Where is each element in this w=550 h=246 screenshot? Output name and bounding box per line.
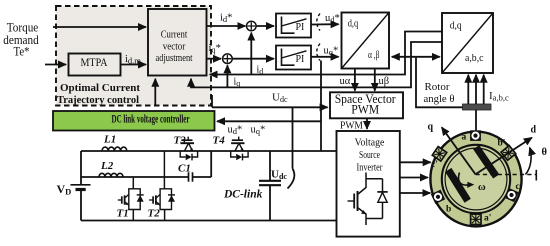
wire: iq feedback from abc transform to CVA and junction2 — [191, 42, 442, 87]
svg-text:id.m: id.m — [125, 54, 141, 66]
svg-text:Udc: Udc — [271, 169, 287, 182]
wire: uq* from PI2 to dq/ab transform — [311, 56, 339, 58]
svg-text:PI: PI — [296, 54, 305, 65]
svg-text:q: q — [428, 122, 434, 133]
slot b (dot) — [431, 190, 445, 204]
svg-text:Inverter: Inverter — [357, 162, 384, 173]
rotor flux barrier bar 1 — [445, 168, 471, 203]
svg-text:d,q: d,q — [450, 21, 463, 32]
wire: bottom rail — [81, 220, 337, 222]
slot c (dot) — [504, 188, 518, 202]
transistor T1 — [132, 177, 134, 189]
svg-text:c': c' — [431, 160, 438, 170]
wire: junction2 to PI 2 — [232, 58, 274, 60]
DC-link capacitor Udc — [269, 151, 271, 180]
svg-text:Te*: Te* — [14, 45, 30, 59]
svg-text:adjustment: adjustment — [156, 53, 193, 64]
wire: iq* to summing junction 2 — [207, 58, 222, 60]
block: Voltage Source Inverter — [337, 131, 400, 237]
wire: Udc tap from DC-link capacitor — [292, 107, 294, 168]
svg-text:θ: θ — [542, 147, 548, 158]
svg-text:VD: VD — [57, 182, 72, 197]
summing junction 1 — [247, 21, 257, 31]
svg-text:DC link voltage controller: DC link voltage controller — [112, 114, 190, 126]
svg-text:Trajectory control: Trajectory control — [57, 94, 139, 106]
d axis arrow — [476, 138, 532, 175]
theta angle arc — [526, 148, 532, 175]
inductor L1 — [102, 147, 127, 151]
rotor flux barrier bar 2 — [473, 145, 499, 178]
transistor T4 — [238, 137, 240, 141]
wire: rotor angle theta up to transforms — [416, 58, 463, 108]
wire: ud*,uq* feedback down to DC link voltage controller — [217, 61, 321, 122]
wire: id.m from MTPA to Current vector adjustment — [121, 64, 147, 66]
svg-text:uα: uα — [340, 76, 351, 87]
svg-text:C1: C1 — [178, 163, 191, 175]
wire: PWM arrow to inverter — [366, 118, 368, 129]
dashed box: Optimal Current Trajectory control region — [56, 6, 211, 106]
svg-text:ud*: ud* — [325, 13, 340, 25]
svg-text:id*: id* — [220, 13, 232, 25]
svg-text:Udc: Udc — [272, 92, 288, 105]
svg-text:ud*: ud* — [228, 124, 243, 136]
inductor L2 — [99, 173, 123, 177]
svg-text:uβ: uβ — [379, 76, 390, 87]
svg-text:d: d — [531, 125, 537, 136]
wire: u-alpha down to SVPWM — [354, 69, 356, 91]
slot c' (cross) — [432, 147, 446, 161]
transistor T2 — [163, 151, 165, 189]
svg-text:PWM: PWM — [340, 120, 363, 131]
current sensor bar — [463, 104, 492, 110]
svg-text:PI: PI — [296, 22, 305, 33]
block: Space Vector PWM — [330, 92, 403, 118]
wire: ud* from PI1 to dq/ab transform — [311, 23, 339, 25]
wire: C1 rail up to top rail — [210, 151, 212, 177]
wire: left vertical with battery — [80, 151, 82, 185]
motor stator outer circle — [430, 132, 521, 227]
slot a (dot) — [470, 130, 481, 141]
block: d,q to alpha,beta transform — [342, 13, 390, 69]
svg-text:Optimal Current: Optimal Current — [60, 82, 140, 94]
svg-text:PWM: PWM — [351, 103, 379, 117]
svg-text:uq*: uq* — [251, 124, 266, 136]
svg-text:ω: ω — [478, 182, 486, 193]
svg-text:T3: T3 — [174, 134, 187, 146]
svg-text:a': a' — [484, 214, 491, 224]
q axis arrow — [442, 127, 476, 174]
slot b' (cross) — [501, 146, 516, 161]
wire: top rail — [81, 150, 337, 152]
transistor T3 — [187, 137, 189, 141]
block MTPA — [69, 54, 121, 76]
wire: Te* to Current vector adjustment — [53, 26, 146, 28]
svg-text:iq*: iq* — [209, 43, 221, 55]
wire: id feedback from abc transform to CVA and junction1 — [210, 32, 442, 75]
svg-text:iq: iq — [234, 77, 241, 89]
svg-text:a,b,c: a,b,c — [465, 53, 484, 64]
svg-text:L1: L1 — [103, 134, 116, 146]
wire: Udc measurement to Space Vector PWM — [211, 95, 213, 107]
svg-text:Current: Current — [161, 30, 188, 41]
wires: three phase outputs to motor — [400, 161, 431, 163]
svg-text:vector: vector — [163, 42, 186, 53]
block: Current vector adjustment — [148, 9, 207, 76]
wire: DC link controller output up into CVA — [154, 79, 156, 106]
svg-text:Source: Source — [359, 150, 380, 161]
omega rotation arrow — [458, 173, 468, 186]
svg-text:Voltage: Voltage — [355, 138, 385, 149]
svg-text:DC-link: DC-link — [223, 189, 263, 201]
svg-text:T1: T1 — [117, 208, 129, 220]
wire: second rail — [81, 176, 188, 178]
wire: u-beta down to SVPWM — [374, 69, 376, 91]
wires: measured phase currents up to abc transform — [467, 75, 469, 104]
wire: Te* to MTPA — [45, 64, 66, 66]
capacitor C1 — [188, 172, 190, 181]
IGBT symbol inside inverter — [348, 173, 388, 226]
svg-text:Ia,b,c: Ia,b,c — [489, 90, 509, 103]
tap of ud*/uq* signals (dashed pick-up) — [317, 14, 320, 61]
svg-text:T4: T4 — [213, 134, 226, 146]
battery VD — [71, 184, 91, 186]
summing junction 2 — [223, 54, 233, 64]
wire: id* to summing junction 1 — [207, 25, 246, 27]
svg-text:T2: T2 — [148, 208, 161, 220]
svg-text:uq*: uq* — [324, 46, 339, 58]
motor stator bore circles — [442, 145, 510, 213]
svg-text:b: b — [446, 205, 451, 215]
wire: junction1 to PI 1 — [256, 25, 274, 27]
svg-text:id: id — [257, 65, 264, 77]
svg-text:b': b' — [498, 139, 506, 149]
svg-text:a: a — [462, 133, 467, 143]
slot a' (cross) — [471, 214, 481, 224]
svg-text:d,q: d,q — [348, 19, 359, 30]
svg-text:α ,β: α ,β — [368, 50, 380, 61]
block: PI controller 2 — [276, 46, 311, 70]
green block: DC link voltage controller — [53, 111, 215, 131]
block: PI controller 1 — [276, 14, 311, 38]
wire: sensor to motor — [475, 110, 477, 132]
block: d,q to a,b,c transform — [442, 13, 493, 73]
svg-text:MTPA: MTPA — [81, 57, 109, 69]
svg-text:angle θ: angle θ — [424, 93, 455, 105]
svg-text:Rotor: Rotor — [424, 81, 449, 93]
wire: theta double arrow between transforms — [392, 56, 440, 58]
svg-text:L2: L2 — [100, 160, 114, 172]
dashed reference axis — [476, 174, 537, 176]
svg-text:c: c — [516, 182, 520, 192]
